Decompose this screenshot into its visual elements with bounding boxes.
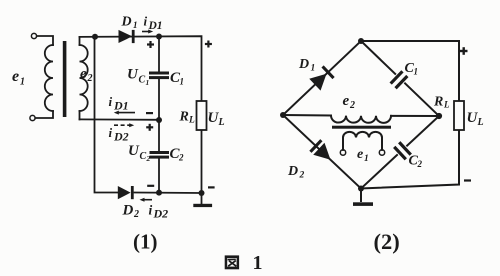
svg-text:R: R xyxy=(433,95,443,110)
svg-text:U: U xyxy=(127,67,139,83)
svg-text:e: e xyxy=(80,66,87,82)
svg-text:1: 1 xyxy=(146,78,150,87)
svg-text:i: i xyxy=(144,14,148,29)
svg-text:R: R xyxy=(179,110,189,125)
svg-text:i: i xyxy=(109,94,113,109)
svg-text:e: e xyxy=(12,68,19,85)
svg-text:2: 2 xyxy=(87,73,93,84)
svg-text:D2: D2 xyxy=(113,130,129,144)
svg-text:(1): (1) xyxy=(133,230,158,254)
svg-text:U: U xyxy=(128,143,140,159)
svg-text:L: L xyxy=(218,117,225,128)
svg-text:2: 2 xyxy=(178,153,184,163)
svg-text:2: 2 xyxy=(146,154,151,163)
svg-text:C: C xyxy=(139,75,146,86)
svg-text:1: 1 xyxy=(364,154,369,164)
svg-text:1: 1 xyxy=(133,20,138,30)
svg-text:(2): (2) xyxy=(374,229,400,254)
svg-text:D: D xyxy=(122,203,134,219)
svg-text:e: e xyxy=(357,147,363,162)
svg-text:D1: D1 xyxy=(113,98,129,112)
svg-text:2: 2 xyxy=(133,209,139,220)
svg-text:e: e xyxy=(343,93,350,109)
svg-text:2: 2 xyxy=(417,159,423,169)
svg-text:i: i xyxy=(149,203,153,218)
svg-text:1: 1 xyxy=(311,64,316,74)
svg-text:L: L xyxy=(443,100,450,110)
svg-text:L: L xyxy=(477,117,484,128)
svg-text:1: 1 xyxy=(180,77,185,87)
svg-text:1: 1 xyxy=(414,66,419,76)
svg-text:D: D xyxy=(121,15,132,30)
svg-text:2: 2 xyxy=(299,170,305,180)
svg-text:1: 1 xyxy=(253,252,263,274)
svg-text:D2: D2 xyxy=(153,206,169,220)
svg-text:D1: D1 xyxy=(148,20,163,32)
svg-text:C: C xyxy=(140,151,147,162)
svg-text:D: D xyxy=(287,164,298,179)
svg-text:D: D xyxy=(298,57,309,72)
svg-text:i: i xyxy=(109,125,113,140)
svg-text:1: 1 xyxy=(20,77,25,88)
svg-text:2: 2 xyxy=(349,100,355,111)
svg-text:L: L xyxy=(188,116,195,126)
